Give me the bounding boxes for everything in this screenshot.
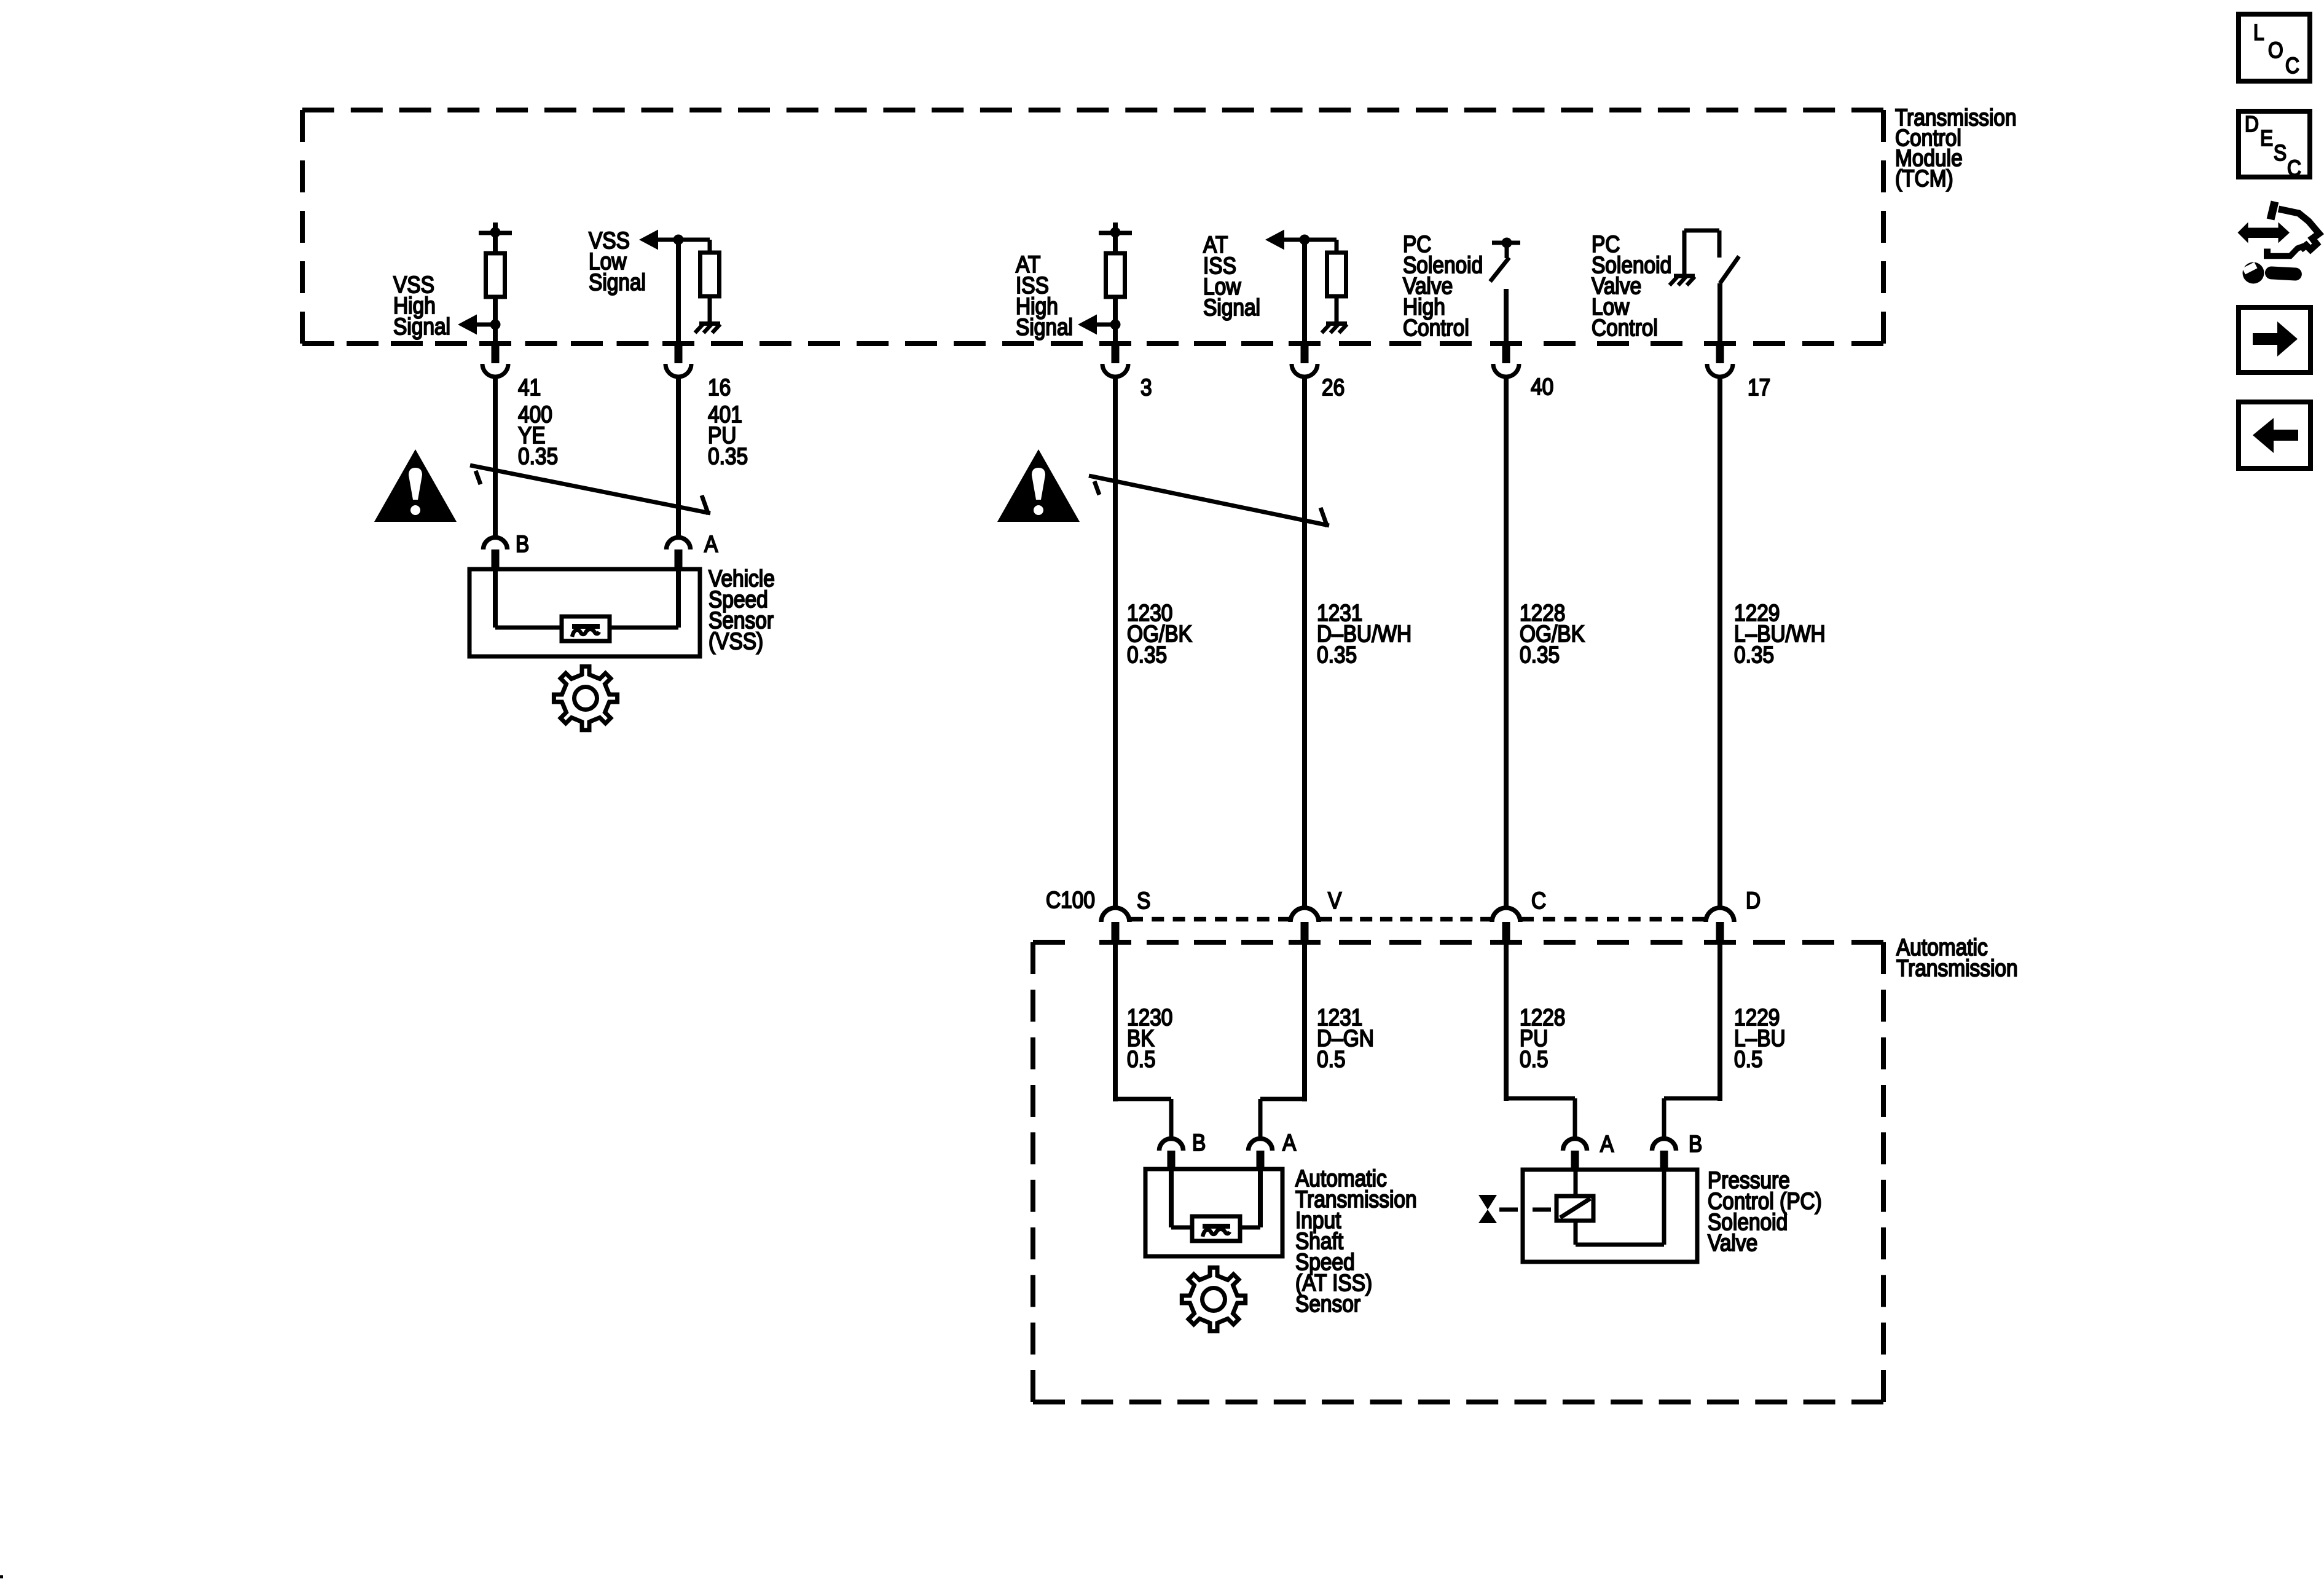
wire 1230 (BK): [1115, 945, 1171, 1138]
svg-text:(VSS): (VSS): [709, 629, 763, 655]
switch blade PC high driver: [1490, 258, 1509, 282]
pin 3 label: [1140, 375, 1152, 401]
svg-text:C100: C100: [1046, 888, 1095, 913]
connector A stub: [675, 549, 683, 572]
ground AT ISS low bias: [1322, 324, 1347, 333]
PC Solenoid Valve High Control label: [1403, 232, 1483, 341]
svg-text:B: B: [1192, 1130, 1206, 1156]
connector B stub: [1660, 1151, 1668, 1172]
node dot VSS high signal: [490, 320, 501, 330]
svg-text:Sensor: Sensor: [1295, 1291, 1360, 1317]
circuit 1229 L-BU label: [1734, 1005, 1786, 1073]
connector pin 17 cup: [1707, 344, 1733, 377]
solenoid coil PC: [1557, 1196, 1593, 1221]
connector B dome (VSS): [484, 538, 508, 550]
pin B label (PC): [1689, 1132, 1702, 1157]
resistor AT ISS low bias: [1327, 253, 1346, 296]
wire 401: [676, 377, 681, 537]
connector A stub: [1257, 1151, 1265, 1171]
connector B dome (AT ISS): [1160, 1139, 1184, 1151]
svg-text:V: V: [1328, 888, 1342, 914]
wire: [1113, 297, 1118, 326]
connector pin 16 cup: [665, 344, 691, 377]
svg-text:0.35: 0.35: [708, 444, 748, 470]
pin B label (VSS): [516, 532, 529, 557]
twisted-pair slash 2: [1089, 476, 1329, 527]
wire: [1113, 233, 1118, 253]
svg-text:S: S: [2274, 140, 2287, 165]
svg-text:D: D: [2245, 111, 2259, 136]
pin D label: [1746, 888, 1761, 914]
circuit 1231 D-GN label: [1317, 1005, 1374, 1073]
svg-text:0.35: 0.35: [518, 444, 558, 470]
VSS High Signal label: [393, 272, 450, 340]
wire 1228: [1504, 377, 1509, 910]
resistor VSS high pull-up: [486, 253, 505, 297]
LOC icon box: [2239, 14, 2310, 81]
AT ISS pickup element: [1192, 1216, 1240, 1241]
wire: [493, 325, 498, 344]
AT ISS sensor box: [1145, 1169, 1282, 1256]
VSS pickup element: [562, 616, 610, 641]
Automatic Transmission dashed box: [1030, 940, 1886, 1404]
PC high driver T-bar: [1492, 241, 1520, 245]
wire: [493, 297, 498, 326]
svg-text:Signal: Signal: [1016, 315, 1073, 341]
wire 1231: [1302, 377, 1307, 910]
svg-text:B: B: [1689, 1132, 1702, 1157]
svg-text:C: C: [1531, 888, 1546, 914]
VSS Low Signal label: [589, 228, 646, 296]
connector C100 pin V dome: [1290, 908, 1319, 922]
svg-text:16: 16: [708, 375, 731, 401]
arrow AT ISS High Signal: [1078, 315, 1097, 335]
svg-text:17: 17: [1748, 375, 1770, 401]
gear icon (AT ISS): [1182, 1267, 1245, 1331]
svg-text:0.35: 0.35: [1520, 642, 1560, 668]
Automatic Transmission label: [1896, 935, 2018, 982]
ground VSS low bias: [695, 324, 720, 333]
wire: [1096, 323, 1115, 327]
svg-text:3: 3: [1140, 375, 1152, 401]
connector A dome (VSS): [667, 538, 691, 550]
connector C100 pin V stub: [1301, 922, 1309, 942]
resistor VSS low bias: [701, 253, 720, 296]
wire: [708, 240, 712, 253]
pin A label (PC): [1600, 1132, 1614, 1157]
node dot PC high: [1502, 238, 1512, 248]
connector pin 40 cup: [1493, 344, 1519, 377]
circuit 1228 PU label: [1520, 1005, 1565, 1073]
adjust icon (arrows and wrench): [2238, 202, 2320, 284]
wire 1230: [1113, 377, 1118, 910]
svg-text:0.35: 0.35: [1734, 642, 1774, 668]
pin 16 label: [708, 375, 731, 401]
resistor AT ISS high pull-up: [1106, 253, 1125, 297]
circuit 1230 label: [1127, 600, 1192, 668]
wire 400: [493, 377, 498, 537]
svg-text:0.35: 0.35: [1127, 642, 1167, 668]
AT ISS high bias T-bar: [1099, 222, 1132, 233]
circuit 1231 label: [1317, 600, 1411, 668]
pin A label (AT ISS): [1282, 1130, 1297, 1156]
circuit 1230 BK label: [1127, 1005, 1172, 1073]
node dot VSS low: [673, 235, 684, 245]
svg-text:Transmission: Transmission: [1896, 956, 2018, 982]
svg-text:40: 40: [1531, 374, 1553, 400]
connector pin 41 cup: [482, 344, 508, 377]
switch blade PC low driver: [1720, 256, 1739, 283]
svg-text:0.35: 0.35: [1317, 642, 1357, 668]
pin 17 label: [1748, 375, 1770, 401]
wire: [1505, 243, 1509, 258]
circuit 1228 label: [1520, 600, 1585, 668]
TCM module dashed box: [300, 108, 1886, 346]
wire: [493, 233, 498, 253]
svg-text:0.5: 0.5: [1520, 1047, 1549, 1073]
svg-text:B: B: [516, 532, 529, 557]
svg-text:0.5: 0.5: [1127, 1047, 1156, 1073]
wire: [1284, 238, 1337, 242]
C100 label: [1046, 888, 1095, 913]
wire: [1574, 1171, 1578, 1196]
node dot ISS high top: [1110, 227, 1121, 238]
warning triangle 1: [374, 449, 457, 522]
svg-text:Control: Control: [1592, 315, 1658, 341]
wire: [1113, 325, 1118, 344]
connector C100 pin S stub: [1112, 922, 1120, 942]
connector A dome (PC): [1563, 1139, 1587, 1151]
svg-text:A: A: [1282, 1130, 1297, 1156]
wire: [658, 238, 710, 242]
arrow AT ISS Low Signal: [1265, 230, 1284, 250]
AT ISS Sensor label: [1295, 1166, 1417, 1317]
backward arrow icon: [2239, 402, 2310, 468]
svg-text:(TCM): (TCM): [1895, 166, 1953, 192]
wire 1229: [1717, 377, 1722, 910]
svg-text:Valve: Valve: [1708, 1231, 1757, 1256]
pin 41 label: [518, 375, 541, 401]
connector pin 3 cup: [1102, 344, 1128, 377]
connector C100 pin S dome: [1101, 908, 1129, 922]
valve linkage dashed: [1499, 1208, 1557, 1212]
wire: [1335, 296, 1339, 322]
svg-text:L: L: [2253, 20, 2264, 45]
connector C100 pin C dome: [1492, 908, 1520, 922]
wire: [1335, 240, 1339, 253]
wire: [1717, 283, 1722, 344]
connector B stub: [492, 549, 500, 572]
connector B dome (PC): [1652, 1139, 1676, 1151]
wire: [1302, 240, 1307, 344]
svg-text:Control: Control: [1403, 315, 1469, 341]
wire: [1504, 289, 1509, 344]
valve symbol: [1478, 1195, 1497, 1223]
circuit 1229 label: [1734, 600, 1826, 668]
C100 dotted line C-D: [1521, 917, 1705, 922]
svg-text:E: E: [2260, 125, 2273, 151]
svg-text:S: S: [1137, 888, 1150, 914]
node dot VSS high top: [490, 227, 501, 238]
node dot ISS high signal: [1110, 320, 1121, 330]
gear icon (VSS): [554, 666, 617, 730]
svg-text:D: D: [1746, 888, 1761, 914]
circuit 400 label: [518, 402, 558, 470]
svg-text:0.5: 0.5: [1734, 1047, 1763, 1073]
pin V label: [1328, 888, 1342, 914]
svg-text:C: C: [2285, 53, 2299, 78]
connector C100 pin D dome: [1706, 908, 1734, 922]
VSS high bias T-bar: [479, 222, 512, 233]
forward arrow icon: [2239, 307, 2310, 372]
twisted-pair slash 1: [470, 465, 710, 514]
wire 1231 (D-GN): [1260, 945, 1305, 1138]
PC low driver hook: [1684, 230, 1719, 275]
TCM label: [1895, 105, 2017, 192]
wire: [1576, 1171, 1664, 1245]
svg-text:26: 26: [1322, 375, 1345, 401]
pin C label: [1531, 888, 1546, 914]
vehicle speed sensor VSS box: [469, 569, 700, 656]
pin 40 label: [1531, 374, 1553, 400]
wire: [676, 240, 681, 344]
AT ISS Low Signal label: [1203, 232, 1260, 321]
connector pin 26 cup: [1292, 344, 1317, 377]
page speck: [0, 1575, 3, 1578]
AT ISS High Signal label: [1016, 252, 1073, 341]
warning triangle 2: [997, 449, 1080, 522]
svg-text:C: C: [2287, 156, 2301, 181]
pin 26 label: [1322, 375, 1345, 401]
connector B stub: [1168, 1151, 1176, 1171]
DESC icon box: [2239, 111, 2310, 181]
svg-text:0.5: 0.5: [1317, 1047, 1346, 1073]
PC solenoid valve box: [1523, 1170, 1697, 1262]
Pressure Control label: [1708, 1168, 1822, 1256]
PC Solenoid Valve Low Control label: [1592, 232, 1671, 341]
svg-text:A: A: [704, 532, 718, 557]
pin S label: [1137, 888, 1150, 914]
svg-text:A: A: [1600, 1132, 1614, 1157]
ground PC low driver: [1670, 276, 1695, 285]
connector A dome (AT ISS): [1249, 1139, 1273, 1151]
pin A label (VSS): [704, 532, 718, 557]
svg-text:O: O: [2268, 37, 2283, 63]
circuit 401 label: [708, 402, 748, 470]
svg-text:Signal: Signal: [393, 314, 450, 340]
wire 1229 (L-BU): [1664, 945, 1720, 1138]
svg-text:Signal: Signal: [589, 270, 646, 296]
svg-text:Signal: Signal: [1203, 295, 1260, 321]
svg-text:41: 41: [518, 375, 541, 401]
C100 dotted line S-V: [1131, 917, 1290, 922]
connector C100 pin D stub: [1716, 922, 1724, 942]
Vehicle Speed Sensor label: [709, 566, 775, 655]
connector A stub: [1571, 1151, 1579, 1172]
C100 dotted line V-C: [1320, 917, 1493, 922]
wire: [708, 296, 712, 322]
wire: [476, 323, 495, 327]
arrow VSS High Signal: [458, 315, 477, 335]
wire 1228 (PU): [1506, 945, 1575, 1138]
connector C100 pin C stub: [1502, 922, 1510, 942]
arrow VSS Low Signal: [639, 230, 658, 250]
node dot ISS low: [1300, 235, 1310, 245]
pin B label (AT ISS): [1192, 1130, 1206, 1156]
